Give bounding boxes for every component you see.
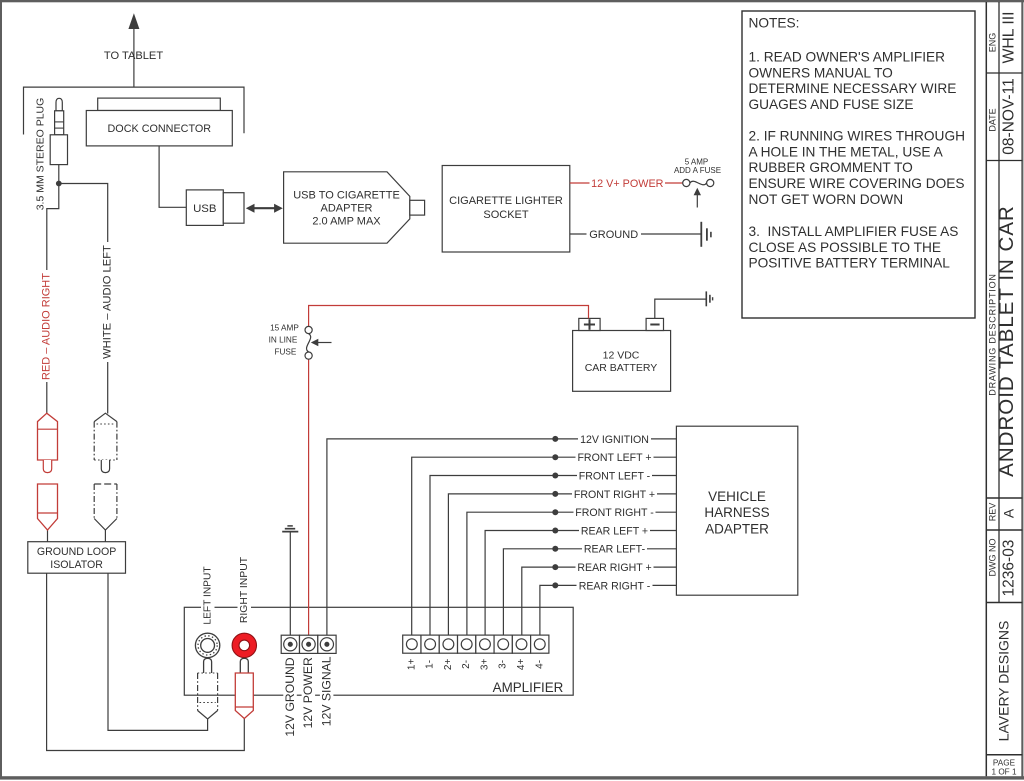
- label GROUND: [587, 227, 642, 241]
- label 12V POWER: [302, 657, 316, 730]
- svg-text:REV: REV: [987, 503, 997, 522]
- arrow pointing at in-line fuse: [317, 342, 332, 344]
- USB to cigarette adapter body: [284, 172, 410, 243]
- adapter tip nub: [410, 200, 425, 215]
- label 12V SIGNAL: [320, 657, 334, 727]
- node front right + junction dot: [552, 491, 558, 497]
- fuse 5 amp add-a-fuse: [690, 181, 707, 185]
- svg-text:1-: 1-: [425, 660, 436, 669]
- wire front right +: [448, 494, 676, 639]
- 12V terminal block: [281, 635, 299, 653]
- wire front left -: [430, 476, 676, 640]
- title block outline: [985, 2, 987, 776]
- svg-text:2.0 AMP MAX: 2.0 AMP MAX: [312, 215, 381, 227]
- white RCA male plug: [94, 413, 117, 421]
- svg-text:VEHICLE: VEHICLE: [708, 489, 766, 504]
- svg-text:12 VDC: 12 VDC: [603, 349, 640, 361]
- svg-text:TO TABLET: TO TABLET: [104, 50, 163, 62]
- node rear left- junction dot: [552, 546, 558, 552]
- svg-text:1. READ OWNER'S AMPLIFIER: 1. READ OWNER'S AMPLIFIER: [749, 50, 946, 65]
- svg-text:NOT GET WORN DOWN: NOT GET WORN DOWN: [749, 192, 904, 207]
- wire dock to USB: [159, 146, 186, 207]
- ground symbol battery: [705, 291, 707, 306]
- svg-text:08-NOV-11: 08-NOV-11: [1001, 78, 1018, 154]
- label REAR LEFT +: [579, 524, 650, 537]
- wire ground socket: [570, 233, 701, 235]
- red plug into right input: [240, 658, 248, 673]
- wire battery positive red: [309, 306, 589, 327]
- svg-text:PAGE: PAGE: [993, 758, 1016, 767]
- wire white jack to isolator: [104, 530, 106, 542]
- svg-text:FUSE: FUSE: [274, 348, 296, 357]
- label 12V GROUND: [283, 657, 297, 738]
- svg-text:RUBBER GROMMENT TO: RUBBER GROMMENT TO: [749, 160, 913, 175]
- red RCA female jack: [38, 484, 58, 530]
- svg-text:CIGARETTE LIGHTER: CIGARETTE LIGHTER: [449, 195, 563, 207]
- wire isolator to left input plug: [108, 573, 208, 730]
- svg-text:1+: 1+: [406, 659, 417, 671]
- svg-text:A HOLE IN THE METAL, USE A: A HOLE IN THE METAL, USE A: [749, 144, 944, 159]
- svg-text:POSITIVE BATTERY TERMINAL: POSITIVE BATTERY TERMINAL: [749, 256, 951, 271]
- double arrow USB to adapter: [251, 207, 278, 209]
- svg-text:GROUND LOOP: GROUND LOOP: [37, 546, 116, 558]
- label REAR RIGHT +: [576, 561, 654, 574]
- svg-text:12V IGNITION: 12V IGNITION: [580, 434, 649, 446]
- wire front left +: [412, 457, 677, 639]
- label RIGHT INPUT: [238, 556, 252, 625]
- svg-text:USB TO CIGARETTE: USB TO CIGARETTE: [293, 189, 400, 201]
- border frame right: [1021, 0, 1023, 779]
- svg-text:LAVERY DESIGNS: LAVERY DESIGNS: [996, 621, 1012, 742]
- arrow pointing at add-a-fuse: [696, 194, 698, 208]
- amplifier box: [184, 607, 573, 695]
- label 12V IGNITION: [578, 432, 651, 445]
- svg-text:2+: 2+: [443, 659, 454, 671]
- USB box: [186, 190, 223, 226]
- svg-text:DOCK CONNECTOR: DOCK CONNECTOR: [108, 123, 212, 135]
- 3.5mm stereo plug tip: [56, 98, 62, 111]
- svg-text:3-: 3-: [498, 660, 509, 669]
- left input RCA jack: [195, 633, 219, 657]
- car battery box: [573, 331, 671, 392]
- svg-text:FRONT RIGHT -: FRONT RIGHT -: [575, 507, 654, 519]
- svg-text:DWG NO: DWG NO: [987, 539, 997, 577]
- svg-text:REAR RIGHT -: REAR RIGHT -: [579, 580, 651, 592]
- border frame top: [0, 0, 1024, 2]
- svg-text:WHL III: WHL III: [1001, 11, 1018, 63]
- wire rear right +: [522, 567, 677, 639]
- svg-text:1236-03: 1236-03: [1001, 540, 1018, 597]
- node rear left + junction dot: [552, 528, 558, 534]
- svg-text:3. INSTALL AMPLIFIER FUSE AS: 3. INSTALL AMPLIFIER FUSE AS: [749, 224, 959, 239]
- svg-text:DETERMINE NECESSARY WIRE: DETERMINE NECESSARY WIRE: [749, 81, 957, 96]
- wire rear left +: [485, 531, 676, 640]
- svg-text:3+: 3+: [479, 659, 490, 671]
- wire battery negative to ground: [655, 299, 706, 318]
- 3.5mm stereo plug body: [50, 135, 67, 165]
- svg-text:ANDROID TABLET IN CAR: ANDROID TABLET IN CAR: [995, 205, 1018, 477]
- node front left + junction dot: [552, 454, 558, 460]
- svg-text:ENG: ENG: [987, 33, 997, 53]
- arrow to tablet: [133, 29, 135, 88]
- wire 12V+ power red: [570, 182, 683, 184]
- white plug into left input: [204, 658, 212, 673]
- svg-text:12 V+ POWER: 12 V+ POWER: [591, 178, 664, 190]
- svg-text:5 AMP: 5 AMP: [685, 157, 709, 166]
- battery negative terminal: [646, 318, 663, 330]
- right input RCA jack red: [232, 633, 256, 657]
- svg-text:REAR LEFT-: REAR LEFT-: [584, 544, 646, 556]
- label REAR RIGHT -: [577, 579, 653, 592]
- tablet bracket: [24, 87, 245, 134]
- label WHITE - AUDIO LEFT: [101, 242, 114, 362]
- label RED - AUDIO RIGHT: [41, 270, 54, 382]
- svg-text:ADAPTER: ADAPTER: [705, 522, 769, 537]
- label LEFT INPUT: [201, 566, 215, 625]
- red RCA male plug: [38, 413, 58, 460]
- notes box: [742, 11, 975, 318]
- junction node: [56, 181, 62, 187]
- border frame bottom: [0, 776, 1024, 779]
- svg-text:3.5 MM STEREO PLUG: 3.5 MM STEREO PLUG: [35, 98, 47, 211]
- svg-text:12V GROUND: 12V GROUND: [283, 657, 297, 736]
- svg-text:ISOLATOR: ISOLATOR: [50, 559, 103, 571]
- svg-text:RED – AUDIO RIGHT: RED – AUDIO RIGHT: [41, 273, 53, 380]
- wire rear right -: [540, 585, 677, 639]
- svg-text:2-: 2-: [461, 660, 472, 669]
- ground loop isolator box: [28, 542, 126, 574]
- svg-text:CAR BATTERY: CAR BATTERY: [585, 362, 658, 374]
- label FRONT LEFT +: [576, 451, 654, 464]
- border frame left: [0, 0, 2, 779]
- svg-text:FRONT RIGHT +: FRONT RIGHT +: [574, 489, 655, 501]
- svg-text:4+: 4+: [516, 659, 527, 671]
- battery positive terminal: [579, 318, 600, 330]
- cigarette lighter socket box: [442, 166, 570, 253]
- label REAR LEFT-: [582, 542, 647, 555]
- svg-text:OWNERS MANUAL TO: OWNERS MANUAL TO: [749, 65, 893, 80]
- node front left - junction dot: [552, 473, 558, 479]
- svg-text:12V POWER: 12V POWER: [301, 657, 315, 728]
- svg-text:FRONT LEFT +: FRONT LEFT +: [577, 452, 651, 464]
- svg-text:USB: USB: [193, 203, 216, 215]
- svg-text:AMPLIFIER: AMPLIFIER: [493, 680, 564, 695]
- USB plug stub: [223, 193, 244, 224]
- svg-text:GUAGES AND FUSE SIZE: GUAGES AND FUSE SIZE: [749, 97, 914, 112]
- dock connector box: [86, 111, 232, 146]
- label FRONT RIGHT +: [572, 487, 657, 500]
- svg-text:RIGHT INPUT: RIGHT INPUT: [239, 556, 250, 623]
- wire red jack to isolator: [47, 530, 49, 542]
- svg-text:REAR LEFT +: REAR LEFT +: [581, 525, 648, 537]
- svg-text:REAR RIGHT +: REAR RIGHT +: [577, 562, 651, 574]
- svg-text:ENSURE WIRE COVERING DOES: ENSURE WIRE COVERING DOES: [749, 176, 965, 191]
- svg-text:4-: 4-: [534, 660, 545, 669]
- svg-text:HARNESS: HARNESS: [704, 505, 769, 520]
- svg-text:ADD A FUSE: ADD A FUSE: [674, 166, 721, 175]
- svg-text:WHITE – AUDIO LEFT: WHITE – AUDIO LEFT: [102, 245, 114, 359]
- vehicle harness adapter box: [676, 426, 797, 595]
- svg-text:DATE: DATE: [987, 108, 997, 131]
- fuse 15 amp in-line: [307, 334, 311, 352]
- dock connector top cap: [98, 98, 221, 110]
- svg-text:1 OF 1: 1 OF 1: [991, 768, 1016, 777]
- svg-text:ADAPTER: ADAPTER: [321, 202, 373, 214]
- ground symbol socket: [700, 222, 702, 247]
- wire fuse to 12V power terminal red: [308, 359, 310, 639]
- wire rear left-: [503, 549, 676, 639]
- node rear right + junction dot: [552, 564, 558, 570]
- battery plus sign: [584, 324, 595, 326]
- svg-text:LEFT INPUT: LEFT INPUT: [203, 566, 214, 624]
- svg-text:2. IF RUNNING WIRES THROUGH: 2. IF RUNNING WIRES THROUGH: [749, 129, 965, 144]
- svg-text:GROUND: GROUND: [589, 229, 638, 241]
- wire front right -: [467, 512, 677, 639]
- battery minus sign: [650, 324, 659, 326]
- svg-text:A: A: [1001, 508, 1017, 518]
- label 12 V+ POWER red: [590, 176, 666, 190]
- white RCA female jack: [94, 484, 117, 519]
- svg-text:SOCKET: SOCKET: [483, 209, 529, 221]
- chassis ground symbol 12V ground: [282, 531, 298, 533]
- wire stereo plug to junction: [58, 165, 60, 184]
- svg-text:FRONT LEFT -: FRONT LEFT -: [579, 470, 651, 482]
- label FRONT RIGHT -: [574, 506, 656, 519]
- node 12v ignition junction dot: [552, 436, 558, 442]
- node front right - junction dot: [552, 509, 558, 515]
- wire isolator to right input plug: [47, 573, 245, 750]
- 3.5mm stereo plug shaft: [55, 111, 64, 135]
- svg-text:CLOSE AS POSSIBLE TO THE: CLOSE AS POSSIBLE TO THE: [749, 240, 941, 255]
- svg-text:IN LINE: IN LINE: [269, 336, 298, 345]
- svg-text:12V SIGNAL: 12V SIGNAL: [319, 656, 333, 726]
- wire 12V ground to chassis: [289, 532, 291, 639]
- wire white audio left: [59, 184, 108, 414]
- label FRONT LEFT -: [577, 469, 652, 482]
- amplifier speaker terminal strip: [403, 635, 421, 653]
- node rear right - junction dot: [552, 582, 558, 588]
- wire 12V signal to ignition: [327, 439, 677, 639]
- svg-text:15 AMP: 15 AMP: [270, 324, 299, 333]
- svg-text:NOTES:: NOTES:: [749, 16, 800, 31]
- wire red audio right: [47, 184, 59, 414]
